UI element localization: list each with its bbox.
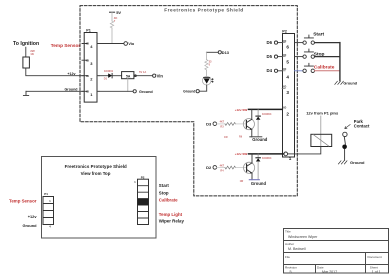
- svg-text:Ground: Ground: [183, 90, 195, 94]
- svg-text:6: 6: [286, 45, 289, 50]
- svg-text:P1: P1: [44, 192, 48, 196]
- svg-text:Author: Author: [285, 242, 294, 246]
- svg-text:4K7: 4K7: [220, 121, 225, 124]
- P1 pin 1: [82, 90, 99, 92]
- svg-text:IO: IO: [283, 53, 287, 57]
- board view box: [42, 157, 157, 239]
- svg-text:4: 4: [286, 75, 289, 80]
- ground symbol park: [338, 161, 347, 164]
- svg-text:D2: D2: [206, 165, 212, 170]
- svg-text:1 of 1: 1 of 1: [372, 270, 381, 274]
- resistor R1: [23, 57, 30, 68]
- svg-text:Ground: Ground: [65, 88, 78, 92]
- svg-text:3: 3: [90, 61, 93, 66]
- svg-text:Mar 2017: Mar 2017: [322, 270, 337, 274]
- svg-text:4: 4: [90, 44, 93, 49]
- wire stop to bus: [315, 56, 340, 58]
- svg-text:IO: IO: [283, 39, 287, 43]
- svg-text:Calibrate: Calibrate: [159, 198, 178, 203]
- ground bar Q2: [249, 179, 259, 181]
- svg-text:Ground: Ground: [139, 90, 153, 94]
- svg-text:Wiper Relay: Wiper Relay: [159, 219, 185, 224]
- switch SW3 Calibrate: [303, 69, 306, 72]
- svg-text:+12v SW: +12v SW: [235, 108, 248, 112]
- connector P1: [84, 33, 97, 103]
- svg-text:IO: IO: [283, 85, 287, 89]
- svg-text:IO: IO: [283, 106, 287, 110]
- svg-text:1N4004: 1N4004: [262, 112, 272, 116]
- svg-text:R9: R9: [239, 136, 243, 139]
- svg-text:Temp Sensor: Temp Sensor: [9, 198, 37, 203]
- svg-text:2: 2: [286, 112, 289, 117]
- P2 pin 3: [282, 88, 285, 90]
- svg-text:Start: Start: [313, 32, 324, 38]
- svg-text:5V: 5V: [116, 10, 121, 15]
- svg-text:D3: D3: [206, 121, 212, 126]
- wire +12v to P2 pin1: [249, 153, 284, 155]
- switch SW1 Start: [303, 41, 306, 44]
- svg-text:Vin: Vin: [157, 74, 164, 79]
- wire calibrate to bus: [315, 70, 340, 72]
- svg-text:Freetronics Prototype Shield: Freetronics Prototype Shield: [164, 8, 243, 13]
- svg-text:Ground: Ground: [343, 81, 357, 85]
- svg-text:D5: D5: [267, 54, 273, 59]
- svg-text:IO: IO: [86, 58, 90, 62]
- relay K1 coil: [311, 134, 332, 146]
- flyback diode D5a: [257, 109, 259, 116]
- svg-text:+12v SW: +12v SW: [235, 152, 248, 156]
- switch ground bus: [339, 43, 341, 81]
- svg-text:2: 2: [90, 76, 93, 81]
- flyback diode D6a: [257, 154, 259, 158]
- svg-text:Title: Title: [285, 229, 291, 233]
- svg-text:Stop: Stop: [159, 190, 169, 195]
- svg-text:Document: Document: [368, 255, 382, 259]
- svg-text:Temp Light: Temp Light: [159, 212, 183, 217]
- wire pin2 to diode: [99, 75, 108, 77]
- svg-text:+12v: +12v: [67, 72, 75, 76]
- switch SW2 Stop: [303, 55, 306, 58]
- svg-text:5V 1A: 5V 1A: [139, 70, 146, 74]
- wire +12v to P2 pin2: [249, 108, 283, 110]
- wire ignition to resistor: [25, 47, 27, 57]
- transistor Q2: [244, 162, 255, 173]
- fuse F1: [122, 72, 134, 79]
- wire D13 to resistor: [206, 51, 218, 53]
- svg-text:1W: 1W: [240, 180, 244, 183]
- wire P1 pin1 to Ground terminal: [99, 90, 133, 92]
- transistor Q1: [243, 119, 254, 130]
- terminal Vin: [153, 74, 156, 77]
- connector P2: [283, 34, 295, 158]
- svg-text:IO: IO: [283, 67, 287, 71]
- terminal Ground: [133, 90, 136, 93]
- resistor zigzag: [205, 60, 208, 71]
- svg-text:1: 1: [90, 92, 93, 97]
- node pin1: [284, 152, 288, 156]
- svg-text:1N4001: 1N4001: [104, 69, 114, 73]
- terminal Vio: [124, 42, 128, 46]
- svg-text:Temp Sensor: Temp Sensor: [51, 43, 81, 48]
- ground bar Q1: [250, 136, 262, 138]
- svg-text:P2: P2: [282, 28, 288, 33]
- svg-text:Start: Start: [159, 183, 170, 188]
- wire pin5 to stop switch: [295, 56, 303, 58]
- shield dashed boundary: [80, 6, 297, 196]
- svg-text:Calibrate: Calibrate: [314, 65, 335, 71]
- terminal Ground LED: [196, 90, 199, 93]
- power 5V symbol: [110, 11, 115, 13]
- wire LED to ground terminal: [199, 85, 206, 91]
- svg-text:D13: D13: [222, 50, 230, 55]
- wire ground to P1 pin1: [26, 90, 84, 92]
- svg-text:P1: P1: [86, 28, 91, 32]
- svg-text:1N4004: 1N4004: [262, 156, 272, 160]
- title block: [284, 229, 389, 274]
- resistor R2 pullup zigzag: [110, 21, 113, 28]
- svg-text:Ground: Ground: [350, 160, 365, 165]
- svg-text:M. Bedwell: M. Bedwell: [288, 247, 306, 251]
- svg-text:1: 1: [289, 156, 292, 161]
- ground symbol left: [23, 91, 28, 95]
- LED D13: [202, 76, 211, 85]
- svg-text:4K7: 4K7: [220, 164, 225, 167]
- svg-text:1W: 1W: [224, 136, 228, 139]
- svg-text:Vio: Vio: [128, 42, 135, 46]
- wire fuse to Vin: [134, 75, 153, 77]
- svg-text:Contact: Contact: [354, 124, 370, 129]
- terminal D13: [218, 51, 221, 54]
- wire pin6 to start switch: [295, 42, 303, 44]
- svg-text:D4: D4: [267, 68, 273, 73]
- svg-text:View from Top: View from Top: [81, 171, 111, 176]
- svg-text:5: 5: [286, 60, 289, 65]
- P2 pin 4: [282, 70, 285, 72]
- ground symbol switches: [335, 81, 344, 84]
- diode D1: [108, 73, 112, 78]
- wire diode to fuse: [112, 75, 122, 77]
- svg-text:IO: IO: [86, 42, 90, 46]
- P1 pin 2: [82, 75, 99, 77]
- wire note to relay: [320, 116, 322, 147]
- park contact switch: [343, 132, 347, 136]
- P2 pin 5: [282, 56, 285, 58]
- P2 pin 6: [282, 42, 285, 44]
- svg-text:R3: R3: [220, 126, 224, 129]
- P1 pin 3: [82, 59, 87, 61]
- svg-text:+12v: +12v: [28, 214, 38, 219]
- svg-text:12v from P1 pins: 12v from P1 pins: [306, 111, 339, 116]
- park contact arrow: [345, 125, 350, 129]
- svg-text:IO: IO: [86, 89, 90, 93]
- svg-text:D6: D6: [267, 40, 273, 45]
- svg-text:3: 3: [286, 90, 289, 95]
- svg-text:To Ignition: To Ignition: [13, 41, 39, 47]
- svg-text:Ground: Ground: [252, 137, 268, 142]
- svg-text:D1: D1: [104, 77, 108, 81]
- svg-text:IO: IO: [86, 74, 90, 78]
- svg-text:5A: 5A: [126, 74, 131, 78]
- svg-text:File: File: [285, 255, 290, 259]
- svg-text:R4: R4: [220, 169, 224, 172]
- svg-text:Ground: Ground: [251, 181, 267, 186]
- wire P1 pin4 to Vio: [99, 43, 123, 45]
- P1 pin 4: [82, 43, 99, 45]
- wire start to bus: [315, 42, 340, 44]
- svg-text:5: 5: [290, 270, 292, 274]
- wire pin4 to calibrate switch: [295, 70, 303, 72]
- svg-text:Ground: Ground: [22, 223, 37, 228]
- svg-text:Windscreen Wiper: Windscreen Wiper: [288, 235, 318, 239]
- wire relay to pin1: [295, 147, 321, 154]
- wire +12v to P1 pin2: [26, 68, 84, 76]
- svg-text:Freetronics Prototype Shield: Freetronics Prototype Shield: [65, 164, 127, 169]
